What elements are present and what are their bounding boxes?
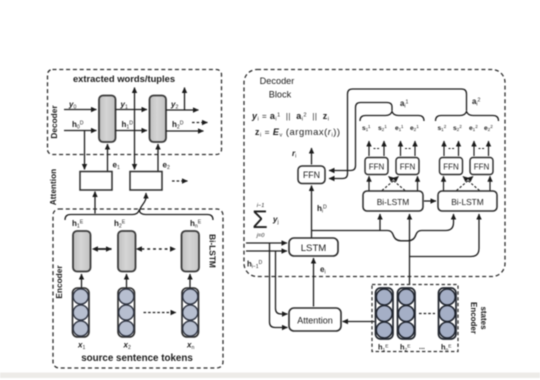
wire up from y2 to extracted words <box>184 88 186 111</box>
bi-lstm cell E3 <box>182 231 200 272</box>
FFN box f1 <box>365 158 388 175</box>
dashed double arrow between E2 and E3 <box>142 248 176 250</box>
arrow up from h_i wire into B1 <box>379 214 381 231</box>
encoder dashed box <box>53 209 223 368</box>
svg-text:zi = Ev (argmax(ri)): zi = Ev (argmax(ri)) <box>255 126 341 139</box>
decoder cell D2 <box>150 96 167 143</box>
arrow B1 to B2 <box>424 200 436 202</box>
svg-text:extracted words/tuples: extracted words/tuples <box>73 73 175 84</box>
bottom page-edge gray band <box>0 373 540 379</box>
wire down from h0 line to attention box 1 <box>84 131 86 170</box>
bi-lstm cell E2 <box>118 231 136 272</box>
wire encoder states into attention <box>343 321 375 323</box>
Bi-LSTM box B1 <box>363 191 423 211</box>
FFN box (main) <box>298 166 325 184</box>
output arrows above FFN f2 <box>400 141 402 156</box>
svg-text:FFN: FFN <box>369 163 385 172</box>
embedding stack S3 <box>182 288 199 337</box>
svg-text:Block: Block <box>269 90 292 100</box>
svg-text:Encoder: Encoder <box>54 265 64 299</box>
wire a_i^2 from brace2 into FFN <box>329 89 467 179</box>
wire r_i out of FFN top <box>311 148 313 165</box>
double arrow between E1 and E2 <box>98 248 112 250</box>
wire down to attention upper input <box>276 251 288 314</box>
LSTM input wire 1 <box>246 242 287 244</box>
wire y1 D1 to D2 <box>116 109 148 111</box>
wire y2 out of D2 <box>166 109 199 111</box>
svg-text:FFN: FFN <box>474 163 490 172</box>
embedding stack S1 <box>73 288 90 337</box>
svg-text:j=0: j=0 <box>256 233 266 239</box>
wire h2^D out of D2 <box>166 130 204 132</box>
wire encoder states branch to B2 <box>410 214 480 257</box>
svg-text:FFN: FFN <box>443 163 459 172</box>
crossing arrows B1 to f1/f2 <box>368 176 370 190</box>
FFN box f3 <box>440 158 463 175</box>
svg-text:FFN: FFN <box>400 163 416 172</box>
brace 1 over s/e labels group 1 <box>360 112 424 122</box>
dashed continuation arrow after h2 <box>192 122 208 124</box>
encoder states dashed box <box>372 285 458 352</box>
wire down from y1/h1 to attention box 2 <box>134 110 136 170</box>
wire up from y1 to extracted words <box>134 88 136 111</box>
svg-text:Attention: Attention <box>297 316 333 326</box>
wire h1^D D1 to D2 <box>116 130 148 132</box>
wire e1 up from attention box 1 into D1 <box>107 144 109 190</box>
decoder block dashed box <box>244 70 505 277</box>
svg-text:states: states <box>479 306 488 330</box>
output arrows above FFN f3 <box>443 141 445 156</box>
wire h_i^D branch to both Bi-LSTMs with hop <box>312 214 454 241</box>
wire y0 into cell D1 <box>64 109 97 111</box>
svg-text:Bi-LSTM: Bi-LSTM <box>208 234 218 268</box>
FFN box f4 <box>470 158 493 175</box>
Attention box <box>289 308 341 331</box>
encoder state stack T1 <box>376 288 394 339</box>
crossing arrows B2 to f3/f4 <box>443 176 445 190</box>
LSTM input wire 2 <box>246 250 287 252</box>
svg-text:Attention: Attention <box>48 169 58 205</box>
summation sum_{j=0}^{i-1} y_j <box>252 203 278 239</box>
wire e2 up from attention box 2 into D2 <box>157 144 159 190</box>
wire embedding 3 up into E3 <box>189 274 191 288</box>
output arrows above FFN f1 <box>368 141 370 156</box>
svg-text:LSTM: LSTM <box>301 243 327 254</box>
svg-text:Decoder: Decoder <box>260 76 295 86</box>
wire encoder states up into B1 <box>409 214 411 285</box>
encoder state stack T2 <box>398 288 416 339</box>
svg-text:Encoder: Encoder <box>469 302 478 334</box>
wire e_i from attention up into LSTM <box>313 258 315 307</box>
dashed arrow between S2 and S3 <box>144 312 177 314</box>
svg-text:yi = ai1 || ai2 || zi: yi = ai1 || ai2 || zi <box>251 111 329 123</box>
wire h_i^D from LSTM up into FFN <box>311 186 313 238</box>
output arrows above FFN f4 <box>473 141 475 156</box>
dashes between T2 and T3 <box>419 313 435 315</box>
svg-text:Decoder: Decoder <box>49 105 59 139</box>
LSTM box <box>289 238 338 256</box>
encoder state stack T3 <box>439 288 457 339</box>
svg-text:...: ... <box>419 344 425 351</box>
svg-text:Bi-LSTM: Bi-LSTM <box>451 197 484 207</box>
svg-text:Σ: Σ <box>252 206 267 234</box>
wire embedding 2 up into E2 <box>126 274 128 288</box>
wire a_i^1 from brace1 into FFN <box>329 103 392 171</box>
FFN box f2 <box>396 158 419 175</box>
dashed continuation arrow right of attention box 2 <box>172 180 188 182</box>
Bi-LSTM box B2 <box>438 191 497 211</box>
wire h0^D into cell D1 <box>64 130 97 132</box>
svg-text:Bi-LSTM: Bi-LSTM <box>377 197 410 207</box>
attention box 2 <box>130 172 162 191</box>
svg-text:FFN: FFN <box>303 170 320 180</box>
wire from brace up to attention box 1 <box>94 192 96 214</box>
embedding stack S2 <box>118 288 135 337</box>
brace over encoder states <box>65 211 213 221</box>
decoder cell D1 <box>99 96 116 143</box>
decoder dashed box <box>48 70 222 155</box>
brace 2 over s/e labels group 2 <box>436 112 499 122</box>
svg-text:source sentence tokens: source sentence tokens <box>81 353 193 364</box>
attention box 1 <box>80 172 112 191</box>
bi-lstm cell E1 <box>73 231 91 272</box>
wire down to attention lower input <box>270 243 288 328</box>
wire from brace up to attention box 2 <box>140 193 147 212</box>
wire embedding 1 up into E1 <box>81 274 83 288</box>
